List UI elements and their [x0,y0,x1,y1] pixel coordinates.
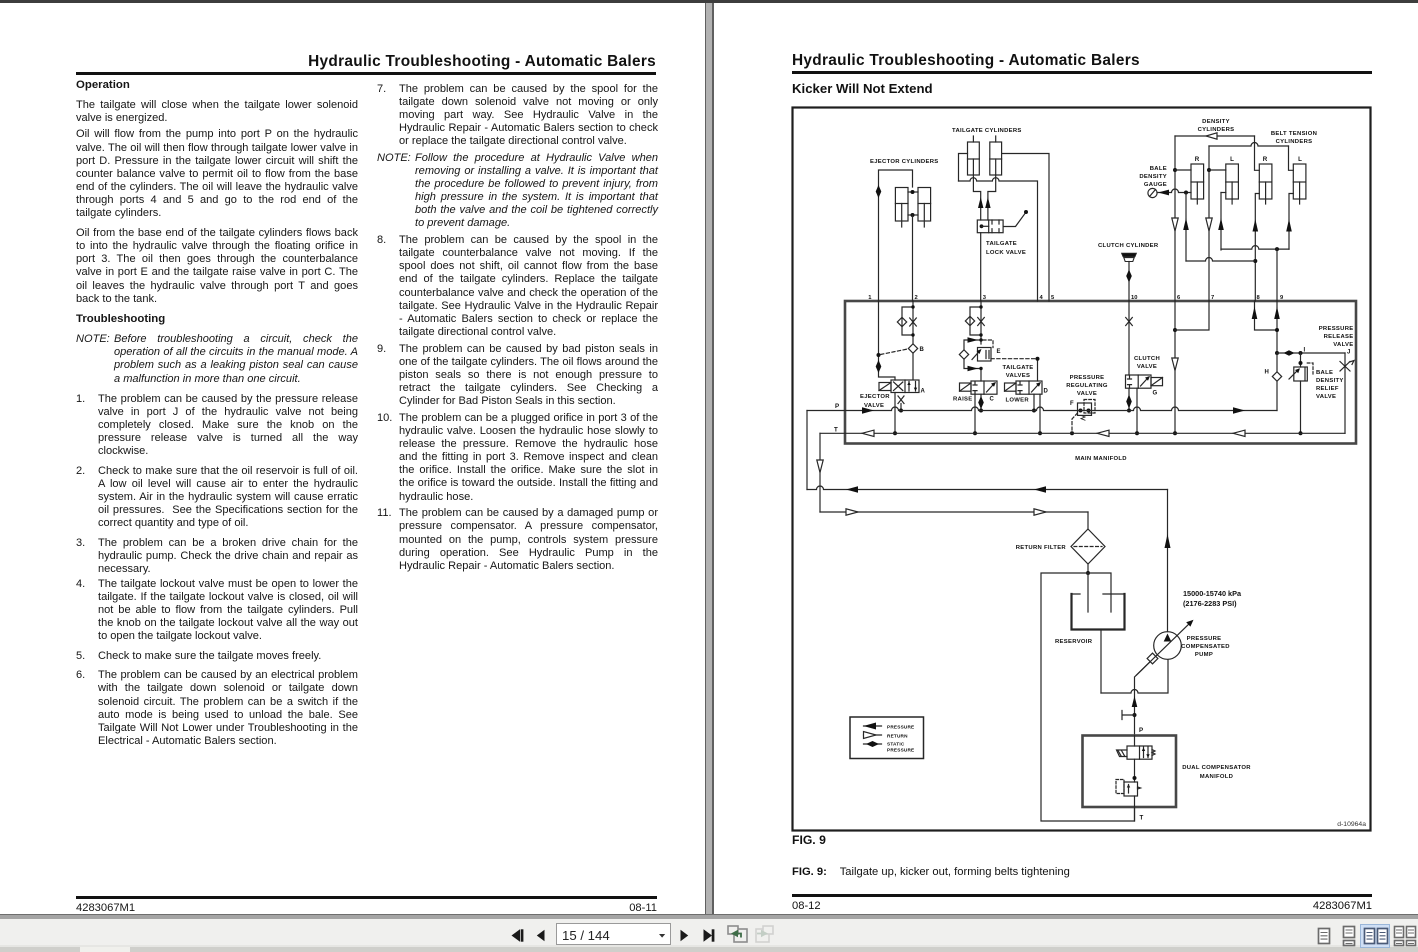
flow arrow up on density R drop [1183,218,1189,230]
junction dot top ports [911,190,915,194]
wire ejector valve to T rail [894,393,896,434]
port number labels [868,295,1284,301]
wire port6 riser [1174,136,1176,301]
orifice diamond on port2 bypass [897,317,906,326]
wire lower valve to P rail [1033,394,1035,410]
flow arrow left on gauge wire [1158,190,1169,196]
legend pressure arrow [864,723,882,730]
gauge wire with arrow to density R lower port [1157,189,1191,192]
junction dot bottom ports [911,213,915,217]
density cylinder L [1226,164,1239,204]
junction dot density R lower [1184,191,1188,195]
RIGHT PAGE [714,3,1418,914]
wire belt L lower riser [1289,194,1293,250]
bale density relief valve [1289,353,1313,435]
density cylinder R [1191,164,1204,204]
flow arrow up on right drop [985,197,990,208]
flow arrow up on compensator drop [1132,696,1138,707]
return arrow down on line6 [1172,218,1178,231]
flow arrow left on pressure feed (left) [846,486,858,492]
continuous layout button [1344,927,1355,946]
wire port3 riser [980,233,982,301]
dashed stub at E top [983,340,993,348]
closed port X below ejector valve [898,396,904,404]
flow arrow right on P rail (left) [862,407,874,413]
wire port9 inside [1276,301,1278,353]
bale density gauge [1148,188,1157,197]
wire dual manifold internal line [1134,736,1136,822]
junction dot clutch T [1135,431,1139,435]
flow arrow up on belt L riser [1286,219,1292,232]
wire port6 inside to T rail [1174,301,1176,433]
return arrow down on line6 inside [1172,358,1178,371]
wire port7 inside elbow to line6 [1175,301,1209,330]
ejector valve solenoid [879,383,891,391]
junction dot test port [1133,713,1137,717]
label pressure rating [1183,589,1242,608]
clutch cylinder symbol [1122,253,1137,261]
return arrow right on return horizontal (left) [846,509,858,515]
wire raise valve to T rail [974,394,976,433]
junction dot port9 tee [1275,247,1279,251]
junction dot raise T [973,431,977,435]
compensator valve 1 [1117,746,1156,759]
closed port X on port2 line [910,318,917,326]
single page layout button [1319,929,1330,944]
raise valve C body [971,381,997,394]
tailgate cylinder left [968,136,980,175]
label EJECTOR VALVE [860,394,890,409]
wire port10 inside to clutch valve [1128,301,1130,375]
wire port2 inside with orifice bypass [902,301,913,380]
junction dot lower T [1038,431,1042,435]
label BELT TENSION CYLINDERS [1271,131,1317,145]
junction dot line6 tee [1173,328,1177,332]
legend return arrow [864,732,882,739]
wire pump outlet riser [1167,490,1169,632]
wire density R lower drop [1185,193,1187,262]
belt tension cylinder R [1259,164,1272,204]
counterbalance valve E [972,348,991,362]
label PRESSURE COMPENSATED PUMP [1181,636,1230,658]
junction dot pilot tap port4 [1036,357,1040,361]
wire cross-connect y261 [1186,258,1255,261]
wire compensator drop to dual manifold [1135,657,1156,736]
wire tailgate cylinders left loop [959,154,968,182]
return arrow left on T rail (mid) [1097,430,1109,436]
orifice diamond on port3 bypass [965,316,974,325]
junction dot clutch P [1127,409,1131,413]
wire belt R lower drop to port8 [1255,194,1259,302]
dashed pilot line to B [881,349,908,355]
pressure release valve J needle [1340,353,1354,433]
junction dot pilot tap port1 [877,353,881,357]
wire second top loop (port7 to belt L riser) [1209,143,1289,147]
lower valve solenoid [1005,383,1017,391]
raise valve solenoid [960,383,972,391]
wire port10 riser [1128,262,1130,302]
flow arrow up on left drop [978,197,983,208]
wire port7 riser [1208,146,1210,301]
pressure regulating valve F [1078,400,1096,421]
flow arrow up on pump riser [1165,534,1171,548]
tailgate cylinder right [990,136,1002,175]
wire port3 inside with orifice bypass [964,301,981,381]
wire tailgate cylinders top right to port5 riser [1002,154,1049,302]
junction dot J node [1275,351,1279,355]
test port plug [1122,711,1135,720]
wire density L lower port stub [1221,192,1226,194]
lever knob dot [1024,210,1028,214]
clutch valve G body [1126,375,1152,388]
check valve B diamond [908,344,917,353]
wire stub line7 to density L [1209,169,1226,171]
label DENSITY CYLINDERS [1198,119,1235,133]
junction dot filter outlet [1086,571,1090,575]
wire port4 line into lower valve [1037,359,1039,381]
lower valve D body [1016,381,1042,394]
static pressure arrow on port10 riser [1126,270,1132,283]
static arrow on cross wire [1284,350,1295,356]
wire filter outlet [1087,564,1089,573]
wire port1 riser with loop to ejector cylinders [879,170,913,301]
svg-text:15 / 144: 15 / 144 [562,928,610,943]
wire ejector valve to P rail [900,404,902,411]
legend box [850,717,924,759]
wire reservoir suction from bottom [1100,630,1102,694]
check diamond counterbalance loop [959,350,968,359]
cylinder labels R L R L [1195,156,1302,163]
label DUAL COMPENSATOR MANIFOLD [1182,765,1251,780]
next view button (disabled) [756,926,773,942]
wire ejector cylinder top ports [908,191,918,193]
label BALE DENSITY RELIEF VALVE [1316,370,1344,400]
flow arrow up port8 [1252,307,1258,320]
junction dot belt R drop at y261 [1253,259,1257,263]
closed port X on port3 line [978,318,985,326]
dual compensator manifold box [1083,736,1177,808]
flow arrow right on P rail (right) [1233,407,1245,413]
wire raise valve to P rail with static arrow [980,394,982,410]
junction dot ejector T [893,431,897,435]
tailgate lock valve [977,220,1003,233]
return arrow down on return leg [817,460,823,473]
wire left tailgate cylinder base drop [973,175,980,220]
flow arrow up on belt R drop [1253,219,1259,232]
wire big T-return loop [1041,573,1135,821]
wire port8 inside elbow [1255,301,1278,330]
label PRESSURE RELEASE VALVE [1319,326,1354,348]
junction dot node I [1299,351,1303,355]
legend label STATIC PRESSURE [887,741,914,752]
schematic frame [793,108,1371,831]
ejector cylinder left [895,188,908,228]
flow arrow up port9 [1274,307,1280,320]
page number box [557,924,671,945]
previous page button [537,930,545,941]
wire tank inlet pipes [1088,573,1111,612]
next page button [681,930,689,941]
label TAILGATE VALVES [1003,365,1034,379]
junction dot line7 upper [1207,168,1211,172]
return arrow left on T rail (left) [862,430,874,436]
reservoir [1072,594,1125,630]
junction dots port2 bypass [911,305,914,308]
static arrows on counterbalance loop [968,337,979,343]
legend static pressure arrow [864,741,882,747]
wire right tailgate cylinder base drop [988,175,996,220]
junction dots port3 [979,305,982,308]
ejector valve body [891,380,919,393]
return arrow right on return horizontal (mid) [1034,509,1046,515]
wire ejector cylinder bottom ports [908,214,918,216]
wire clutch valve to P rail with static arrow [1128,388,1130,410]
LEFT PAGE [0,3,705,914]
static pressure arrow on port1 wire [876,185,882,198]
previous view button [728,926,747,942]
junction dot lower P [1032,409,1036,413]
wire filter drop [1087,512,1089,529]
static pressure arrow on port1 inside [876,360,882,373]
wire clutch valve to T rail [1136,388,1138,433]
main manifold box [845,301,1356,444]
wire lower valve to T rail [1039,394,1041,433]
wire suction horizontal to pump [1101,659,1168,693]
first page button [512,929,524,941]
belt tension cylinder L [1293,164,1306,204]
wire port9 riser [1276,249,1278,301]
junction dot ejector P [899,409,903,413]
junction dot between compensator valves [1133,776,1137,780]
clutch valve solenoid [1151,378,1163,386]
closed port X on port10 line [1126,318,1133,326]
T rail [820,432,1345,434]
wire density L lower drop [1220,193,1222,251]
junction dot line6 T [1173,431,1177,435]
compensator valve 2 [1116,780,1141,797]
dashed pilot F to T rail [1072,413,1078,433]
return arrow open left on top loop [1206,133,1217,139]
return arrow left on T rail (right) [1233,430,1245,436]
return arrow down on line7 [1206,218,1212,231]
wire belt L top feed from loop2 [1289,146,1294,170]
last page button [704,929,715,941]
flow arrow up on density L drop [1218,218,1224,230]
wire port1 inside drop to ejector valve [879,301,896,380]
ejector cylinder right [918,188,931,228]
wire return down-leg from T [819,433,821,512]
wire cross to node I [1277,352,1345,354]
wire stub line6 to density R [1175,169,1191,171]
junction dot F pilot T [1070,431,1074,435]
junction dot line6 upper [1173,168,1177,172]
label TAILGATE LOCK VALVE [986,241,1026,256]
pressure compensated pump [1137,620,1194,675]
two page continuous layout button [1395,927,1416,946]
label CLUTCH VALVE [1134,356,1160,370]
wire return horizontal to filter [820,511,1088,513]
lock valve lever [1003,213,1025,227]
junction dot raise P [979,409,983,413]
return filter diamond [1071,529,1105,564]
flow arrow left on pressure feed (mid) [1034,486,1046,492]
wire top loop density (port6 to line8) [1175,135,1255,137]
dashed pilot E to port4 line [991,358,1038,360]
label PRESSURE REGULATING VALVE [1066,375,1108,397]
P rail [807,407,1277,410]
wire pressure feed up-leg to P [806,411,808,490]
wire belt R top feed from loop1 [1255,136,1260,170]
wire pressure feed horizontal from pump [807,486,1168,490]
wire cross-connect y250 [1221,246,1289,250]
check valve H diamond [1272,353,1281,411]
two page layout button (active) [1361,925,1390,948]
wire port2 riser [912,215,914,301]
junction dot port8/9 join [1275,328,1279,332]
wire tailgate cylinders bottom loop to port4 riser [959,178,1038,301]
label BALE DENSITY GAUGE [1139,166,1167,188]
